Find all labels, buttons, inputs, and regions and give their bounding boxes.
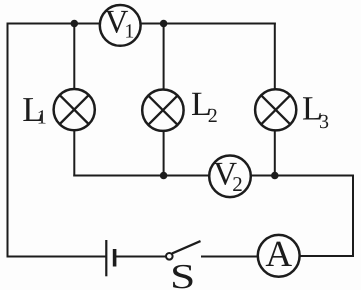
svg-text:2: 2: [208, 105, 218, 127]
svg-text:1: 1: [124, 21, 134, 43]
svg-text:1: 1: [37, 107, 47, 129]
svg-text:2: 2: [232, 172, 243, 196]
svg-text:A: A: [265, 234, 292, 275]
svg-text:3: 3: [319, 111, 329, 133]
svg-text:S: S: [170, 257, 195, 290]
